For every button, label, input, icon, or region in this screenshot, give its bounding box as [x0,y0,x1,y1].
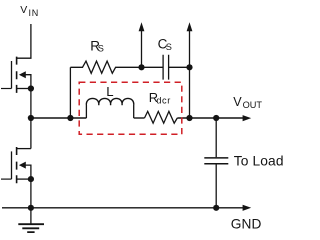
resistor Rdcr [145,111,178,123]
arrow snubber mid probe [141,31,143,67]
node ground rail junction dot [28,205,34,211]
arrow GND rail [243,205,252,211]
wire SW node vertical [30,89,32,149]
svg-text:To Load: To Load [234,154,284,169]
node left branch junction dot [67,115,73,121]
wire inductor to Rdcr [134,117,145,119]
wire CS to right branch [169,67,190,118]
wire left snubber branch riser [69,67,71,118]
wire output cap branch [215,118,217,208]
svg-text:L: L [106,84,113,99]
node VIN label [20,4,39,18]
arrow VOUT [243,115,252,121]
arrow snubber right probe [189,31,191,67]
ground symbol [18,208,44,232]
node snubber return junction dot [186,115,192,121]
node VOUT label [233,95,262,110]
resistor RS [70,61,163,73]
capacitor CS [163,55,169,80]
svg-text:S: S [98,44,104,54]
node Rdcr label [149,90,171,106]
svg-text:GND: GND [231,216,262,231]
node snubber mid junction dot [138,64,144,70]
node snubber right junction dot [186,64,192,70]
node RS label [90,39,104,54]
svg-text:S: S [166,42,172,52]
wire VIN lead to Q1 drain [17,24,31,58]
node CS label [158,37,172,52]
capacitor C-load (To Load) [204,158,228,164]
dashed box (L + Rdcr inductor model) [79,82,182,134]
node Q1 source junction dot [28,85,34,91]
svg-text:dcr: dcr [156,96,170,106]
node Q2 source junction dot [28,176,34,182]
node output cap junction dot [213,115,219,121]
wire main line (SW node to inductor) [31,117,87,119]
svg-text:OUT: OUT [243,100,263,110]
svg-text:IN: IN [29,8,39,18]
wire Rdcr to VOUT arrow [177,117,243,119]
wire ground rail [2,207,243,209]
svg-text:V: V [20,4,27,16]
transistor Q1 (high-side MOSFET) [1,57,31,93]
transistor Q2 (low-side MOSFET) [1,147,31,183]
node load ground junction dot [213,205,219,211]
node SW / main-line junction dot [28,115,34,121]
svg-text:V: V [233,95,242,109]
wire Q2 source to ground rail [30,179,32,208]
inductor L [86,98,133,118]
